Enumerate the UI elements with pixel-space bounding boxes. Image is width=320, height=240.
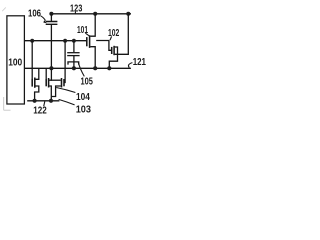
node dot gate line x74 (72, 39, 76, 43)
capacitor C106 bottom lead (crosses gate wire, no dot) (50, 24, 52, 68)
node dot wire121 x95 (93, 66, 97, 70)
svg-text:103: 103 (76, 105, 92, 116)
node dot gate line x32 (30, 39, 34, 43)
element 105 lower plate (67, 55, 79, 57)
wire from top rail down to Q102 right side (118, 14, 129, 55)
block 100 rectangle (7, 16, 25, 104)
node dot gate line x65 (63, 39, 67, 43)
transistor Q103 source lead down to bottom rail (49, 86, 51, 101)
mirrored transistor drain lead joining Q103 drain node (51, 79, 60, 81)
mirrored transistor channel bar (61, 78, 63, 88)
svg-text:101: 101 (77, 25, 88, 36)
transistor Q104 source lead jog down to bottom rail (35, 86, 39, 101)
transistor Q105b (mirrored, right of Q103) gate feed from gate line (64, 41, 65, 83)
leader 121 (128, 63, 132, 68)
mirrored transistor gate bar (63, 79, 65, 86)
transistor Q102 channel bar (113, 46, 115, 55)
capacitor C106 plates (46, 22, 58, 25)
element 105 upper plate (67, 52, 79, 54)
transistor Q103 gate bar (45, 79, 47, 86)
node dot top-left on rail (49, 12, 53, 16)
top rail (power line 123) (51, 13, 131, 15)
leader 106 (41, 16, 46, 21)
transistor Q104 gate bar (31, 78, 33, 86)
node dot wire121 x109 (107, 66, 111, 70)
node dot bottom rail right (49, 99, 53, 103)
wire 121 horizontal (25, 67, 131, 69)
transistor Q101 channel bar (89, 35, 91, 48)
leader 104 (56, 88, 75, 93)
leader 102 (110, 36, 112, 40)
leader 103 (59, 99, 75, 105)
mirrored transistor source lead jog to bottom rail (51, 86, 61, 97)
transistor Q104 gate feed from gate line (crosses wire121) (31, 41, 33, 79)
transistor Q101 gate bar (86, 37, 88, 46)
gate wire segment to Q102 (96, 41, 111, 51)
transistor Q103 gate feed from wire121 (45, 68, 47, 79)
node dot wire121 x51 (49, 66, 53, 70)
leader 105 (78, 62, 84, 76)
node dot rail middle (93, 12, 97, 16)
svg-text:100: 100 (8, 58, 22, 69)
transistor Q102 source lead with jog down to wire 121 (109, 54, 117, 68)
element 105 top lead (73, 41, 75, 52)
transistor Q103 channel bar (48, 78, 50, 88)
svg-text:123: 123 (70, 3, 83, 14)
svg-text:104: 104 (76, 92, 90, 103)
leader 101 (85, 33, 89, 36)
leader 122 (44, 102, 45, 107)
svg-text:105: 105 (81, 77, 94, 88)
leader 123 (74, 12, 76, 14)
second wire (gate line from block 100) (25, 40, 87, 42)
bottom rail 122 (27, 100, 59, 102)
transistor Q104 drain lead up to wire121 (36, 68, 39, 79)
transistor Q101 drain lead to top rail (90, 14, 95, 36)
transistor Q101 source lead down to wire 121 (90, 47, 95, 69)
svg-text:106: 106 (28, 9, 41, 20)
element 105 middle lead (73, 56, 75, 62)
transistor Q104 channel bar (34, 78, 36, 88)
element 105 bottom lead to wire 121 (73, 62, 75, 68)
arrowhead of leader 106 (43, 20, 47, 23)
node dot bottom rail left (33, 99, 37, 103)
svg-text:122: 122 (33, 106, 47, 117)
svg-text:121: 121 (133, 57, 146, 68)
faint scan artifact top-left (2, 7, 6, 11)
faint scan artifact bottom-left corner (4, 97, 11, 110)
transistor Q102 drain lead (115, 47, 118, 54)
node dot wire121 x74 (72, 66, 76, 70)
svg-text:102: 102 (108, 28, 120, 39)
element 105 bracket electrode (68, 62, 79, 65)
capacitor C106 top lead (50, 14, 52, 22)
transistor Q103 drain lead up to wire121 dot (49, 68, 51, 80)
node dot rail right (126, 12, 130, 16)
transistor Q102 gate bar (111, 47, 113, 54)
